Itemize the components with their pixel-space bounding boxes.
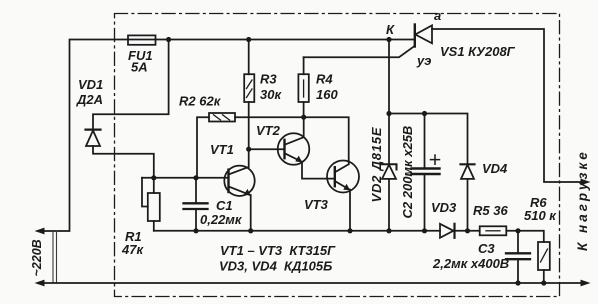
wire: VD1 anode link (93, 146, 154, 178)
zener diode VD2 (382, 164, 397, 169)
wire: bottom rail (43, 282, 582, 284)
node: R6 bottom (541, 280, 546, 285)
resistor R3 (244, 74, 254, 102)
node: VD4 bottom (465, 228, 470, 233)
svg-text:VD3, VD4 КД105Б: VD3, VD4 КД105Б (219, 259, 332, 274)
svg-text:С3: С3 (478, 241, 495, 256)
node: R2/C1 junction (193, 175, 198, 180)
wire: VD3 to R5 (455, 230, 480, 232)
capacitor C3 (517, 231, 519, 283)
wire: VD2 branch (388, 40, 390, 231)
diode VD3 (440, 224, 454, 238)
svg-text:R2 62к: R2 62к (179, 94, 222, 109)
node: R3 top (246, 37, 251, 42)
svg-text:К: К (386, 22, 395, 37)
svg-text:К нагрузке: К нагрузке (575, 149, 590, 251)
svg-text:30к: 30к (260, 87, 282, 102)
svg-text:2,2мк х400В: 2,2мк х400В (432, 256, 509, 271)
svg-text:а: а (434, 8, 441, 23)
transistor VT2 (278, 133, 310, 165)
node: VD1/R1 junction (151, 175, 156, 180)
svg-text:VS1 КУ208Г: VS1 КУ208Г (440, 44, 516, 59)
node: C2 top (422, 111, 427, 116)
arrow: load upper (581, 179, 591, 186)
svg-text:R3: R3 (260, 72, 277, 87)
svg-text:R4: R4 (316, 72, 333, 87)
node: C2 bottom (422, 228, 427, 233)
node: fuse-VD1 junction (166, 37, 171, 42)
svg-text:С2 200мк х25В: С2 200мк х25В (400, 126, 415, 219)
node: VD2 branch top (386, 37, 391, 42)
svg-text:Д2А: Д2А (76, 92, 103, 107)
node: VT3 emitter (347, 228, 352, 233)
node: C1 bottom (193, 228, 198, 233)
svg-text:160: 160 (316, 87, 338, 102)
node: R4/VT2 collector (301, 115, 306, 120)
svg-text:С1: С1 (216, 198, 233, 213)
svg-text:VD3: VD3 (431, 200, 457, 215)
node: VD2 bottom (386, 228, 391, 233)
svg-text:VD4: VD4 (482, 161, 508, 176)
node: VT1 collector / VT2 base (246, 147, 251, 152)
wire: gate wire R4 to VS1 (304, 46, 415, 57)
wire: R5 to R6 corner (506, 231, 544, 242)
wire: VD1 cathode link (93, 40, 169, 131)
svg-text:VT1 – VT3 КТ315Г: VT1 – VT3 КТ315Г (220, 243, 336, 258)
node: VD2 / C2-wire junction (386, 111, 391, 116)
thyristor VS1 (414, 25, 416, 47)
fuse FU1 (128, 35, 156, 44)
wire: C2/VD4 top wire (389, 114, 468, 165)
resistor R2 (209, 113, 235, 122)
wire: top rail (128, 39, 414, 41)
svg-text:VD1: VD1 (78, 77, 103, 92)
transistor VT1 (224, 166, 254, 196)
svg-text:47к: 47к (121, 242, 144, 257)
svg-text:~220В: ~220В (30, 239, 44, 276)
arrow: load lower (581, 280, 591, 287)
node: VT1 emitter (248, 228, 253, 233)
resistor R1 (148, 193, 160, 221)
svg-text:VD2 Д815Е: VD2 Д815Е (369, 127, 384, 203)
transistor VT3 (327, 161, 359, 193)
wire: mains plug double line (53, 231, 57, 283)
svg-text:VT1: VT1 (210, 142, 234, 157)
wire: common mid rail (154, 230, 440, 232)
node: C3 top (515, 228, 520, 233)
diode VD1 (86, 129, 101, 131)
arrow: mains lower (35, 280, 45, 287)
wire: R1 trimmer tap (142, 178, 148, 207)
svg-text:5А: 5А (131, 60, 148, 75)
wire: base rail of VT1 (142, 177, 229, 179)
svg-text:VT3: VT3 (304, 197, 329, 212)
resistor R4 (298, 74, 308, 102)
svg-text:уэ: уэ (416, 53, 431, 68)
capacitor C2 (424, 114, 426, 231)
resistor R5 (480, 226, 507, 235)
svg-text:R5 36: R5 36 (473, 203, 508, 218)
wire: VS1 anode to load (432, 29, 582, 182)
wire: feedback node wire (235, 117, 349, 160)
svg-text:0,22мк: 0,22мк (200, 212, 243, 227)
svg-text:510 к: 510 к (524, 208, 557, 223)
arrow: mains upper (35, 228, 45, 235)
node: C3 bottom (515, 280, 520, 285)
wire: VT1 collector to VT2 base (249, 148, 285, 150)
resistor R6 (538, 242, 550, 270)
enclosure dash-dot border (115, 14, 560, 297)
capacitor C1 (195, 178, 197, 231)
wire: AC upper lead (43, 40, 128, 232)
svg-text:VT2: VT2 (256, 123, 281, 138)
diode VD4 (461, 163, 475, 165)
